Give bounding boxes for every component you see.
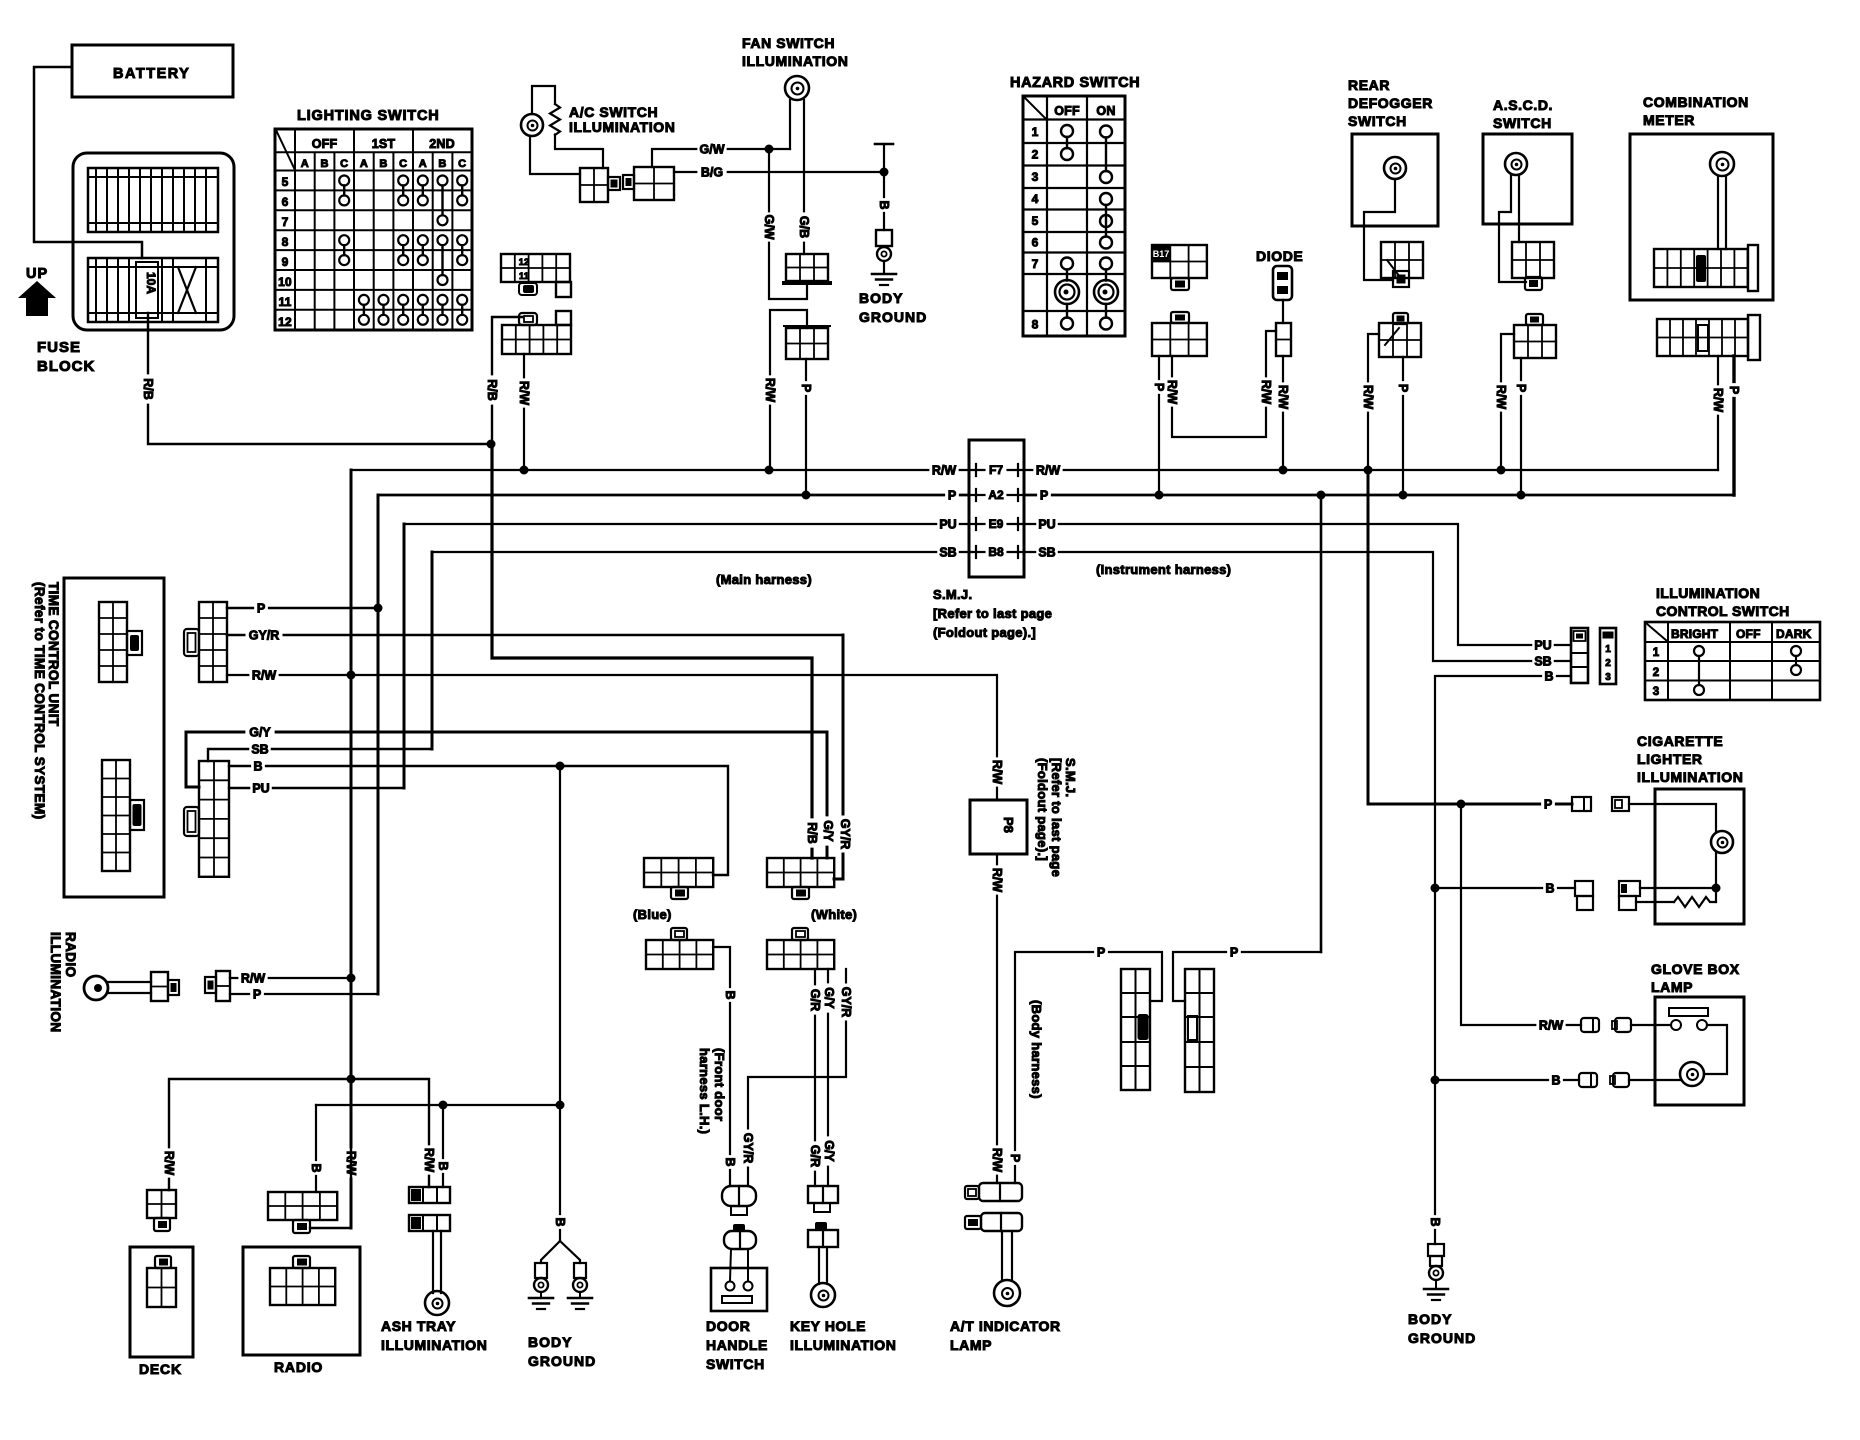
wire R/W meter to bus <box>1717 356 1719 470</box>
ascd harness connector <box>1514 325 1556 358</box>
svg-text:R/W: R/W <box>422 1148 436 1173</box>
wire G/R keyhole <box>814 969 816 1186</box>
junction B cigarette lighter <box>1431 884 1440 893</box>
connector front door (blue) lower <box>646 928 713 969</box>
svg-text:1: 1 <box>1032 125 1039 139</box>
connector A/T lamp lower <box>965 1213 1022 1231</box>
label G/R upper <box>808 985 822 1014</box>
door handle switch box <box>711 1249 767 1311</box>
label B <box>877 198 891 212</box>
svg-text:P: P <box>1040 488 1048 502</box>
junction P bus defogger <box>1399 491 1408 500</box>
A/T lamp stem <box>1002 1231 1012 1281</box>
lamp key hole illumination <box>811 1283 835 1307</box>
connector B17 hazard <box>1152 245 1207 278</box>
lighting switch harness connector <box>502 311 571 354</box>
svg-text:R/B: R/B <box>805 822 819 844</box>
connector key-cylinder (white) lower <box>767 928 834 969</box>
svg-text:G/W: G/W <box>762 215 776 240</box>
svg-text:ON: ON <box>1096 104 1115 118</box>
connector fan switch (harness side) <box>784 326 830 359</box>
svg-text:SB: SB <box>251 742 268 756</box>
radio illumination label <box>48 932 78 1033</box>
svg-text:1: 1 <box>1653 647 1660 659</box>
svg-text:RADIO: RADIO <box>63 932 78 978</box>
defogger connector pigtail <box>1387 260 1409 287</box>
wire R/W ascd to bus <box>1501 334 1514 470</box>
svg-text:TIME CONTROL UNIT: TIME CONTROL UNIT <box>46 582 61 727</box>
svg-text:R/W: R/W <box>1165 380 1179 405</box>
connector deck <box>147 1256 176 1307</box>
label P left of smj <box>945 488 959 502</box>
label R/B <box>485 375 499 404</box>
label P right of smj <box>1037 488 1051 502</box>
svg-text:ILLUMINATION: ILLUMINATION <box>1637 769 1743 785</box>
svg-text:SWITCH: SWITCH <box>706 1356 765 1372</box>
key hole illumination label <box>790 1318 896 1353</box>
svg-text:P: P <box>948 488 956 502</box>
svg-text:GROUND: GROUND <box>528 1353 596 1369</box>
junction R/W distribution <box>347 1075 356 1084</box>
svg-text:4: 4 <box>1032 192 1039 206</box>
svg-text:OFF: OFF <box>1736 627 1761 641</box>
junction R/W TCU <box>347 671 356 680</box>
svg-text:RADIO: RADIO <box>274 1359 323 1375</box>
connector TCU upper (unit side) <box>99 602 142 682</box>
svg-text:C: C <box>340 158 348 170</box>
smj pin B8 <box>976 545 1018 559</box>
svg-text:B: B <box>877 200 891 209</box>
wire P body harness right <box>1173 952 1321 1001</box>
label G/B <box>797 212 811 241</box>
label P <box>1152 380 1166 394</box>
svg-text:METER: METER <box>1643 112 1695 128</box>
lamp radio illumination <box>84 976 108 1000</box>
svg-text:3: 3 <box>1653 686 1660 698</box>
pin connector P male <box>1572 797 1591 811</box>
wire P fan to bus <box>805 359 807 495</box>
label G/Y white connector <box>821 816 835 845</box>
connector fan switch (switch side) <box>784 254 830 283</box>
connector illumination control (male) <box>1571 628 1588 683</box>
svg-text:R/W: R/W <box>1036 463 1061 477</box>
wire B to glove box <box>1435 1079 1579 1081</box>
connector illumination control (female) <box>1600 628 1616 684</box>
S.M.J. P8 box <box>970 800 1027 854</box>
svg-text:R/B: R/B <box>485 379 499 401</box>
svg-text:(Refer to TIME CONTROL SYSTEM): (Refer to TIME CONTROL SYSTEM) <box>32 582 47 820</box>
fuse crossed-out <box>178 267 196 313</box>
svg-text:11: 11 <box>519 271 529 281</box>
label R/W <box>1165 377 1179 406</box>
door handle switch label <box>706 1318 768 1372</box>
ground terminal left <box>529 1263 553 1309</box>
ascd harness connector tab <box>1526 314 1543 325</box>
label SB <box>249 742 271 756</box>
lighting switch connector tab <box>519 283 537 295</box>
svg-text:A: A <box>419 158 427 170</box>
wire ascd lamp jog to tab <box>1499 175 1526 282</box>
svg-text:G/R: G/R <box>808 1145 822 1167</box>
label PU <box>250 781 272 795</box>
svg-text:[Refer to last page: [Refer to last page <box>933 606 1052 621</box>
svg-text:R/B: R/B <box>141 378 155 400</box>
label R/W glove box <box>1536 1018 1565 1032</box>
fuse block label <box>37 339 95 375</box>
hazard switch lamp OFF <box>1055 280 1079 304</box>
hazard harness connector tab <box>1171 312 1189 323</box>
label B <box>1542 669 1556 683</box>
label P <box>1396 381 1410 395</box>
svg-text:10A: 10A <box>144 272 158 294</box>
svg-text:R/W: R/W <box>241 971 266 985</box>
label GY/R white connector <box>838 816 852 853</box>
fuse 10A <box>136 262 158 318</box>
svg-text:A.S.C.D.: A.S.C.D. <box>1493 97 1553 113</box>
lamp A.S.C.D. switch <box>1505 153 1527 175</box>
svg-text:9: 9 <box>282 255 289 269</box>
svg-text:(Instrument harness): (Instrument harness) <box>1096 562 1231 577</box>
svg-text:A2: A2 <box>988 488 1004 502</box>
svg-text:(White): (White) <box>811 907 857 922</box>
svg-text:R/W: R/W <box>252 668 277 682</box>
label GY/R upper <box>839 984 853 1021</box>
svg-text:KEY HOLE: KEY HOLE <box>790 1318 866 1334</box>
label P <box>250 987 264 1001</box>
connector ash tray lamp side <box>409 1215 450 1231</box>
wire B/G <box>674 171 884 173</box>
connector ascd <box>1512 242 1554 278</box>
wire bulb to connector <box>530 136 580 174</box>
svg-text:SB: SB <box>1534 654 1551 668</box>
label R/W above P8 <box>990 757 1004 786</box>
label R/W radio <box>344 1148 358 1177</box>
junction P bus body harness <box>1317 491 1326 500</box>
label R/W right of smj <box>1033 463 1062 477</box>
svg-text:P8: P8 <box>1001 817 1016 833</box>
svg-text:SB: SB <box>939 545 956 559</box>
A/C switch illumination label <box>569 104 675 135</box>
ground terminal right side <box>1424 1244 1448 1300</box>
junction P cigarette lighter <box>1457 800 1466 809</box>
wire PU vertical <box>403 524 406 788</box>
svg-text:B: B <box>309 1163 323 1172</box>
svg-text:2: 2 <box>1032 148 1039 162</box>
junction R/W bus x769 <box>765 466 774 475</box>
svg-text:P: P <box>1514 384 1528 392</box>
junction B/G / B <box>880 168 889 177</box>
battery B1 <box>72 45 233 97</box>
label SB <box>1532 654 1554 668</box>
svg-text:PU: PU <box>1038 517 1055 531</box>
label GY/R <box>246 628 283 642</box>
junction R/W bus x524 <box>520 466 529 475</box>
connector body harness (female) <box>1185 969 1214 1092</box>
label R/W <box>1361 382 1375 411</box>
connector A/T lamp upper <box>965 1183 1022 1201</box>
label R/W <box>1711 385 1725 414</box>
wire P into cigarette lighter <box>1629 804 1716 831</box>
svg-text:B: B <box>723 990 737 999</box>
svg-text:10: 10 <box>278 275 292 289</box>
label B ashtray <box>436 1159 450 1173</box>
svg-text:DARK: DARK <box>1776 627 1812 641</box>
label R/W ashtray <box>422 1145 436 1174</box>
svg-text:DIODE: DIODE <box>1256 248 1303 264</box>
wire P TCU <box>227 607 378 609</box>
label R/W <box>249 668 278 682</box>
lighting switch connector (switch side) <box>501 254 571 297</box>
svg-text:11: 11 <box>278 295 291 309</box>
connector radio illumination <box>151 972 179 1001</box>
wire R/W P8 to A/T lamp <box>996 854 998 1183</box>
pin connector R/W male <box>1581 1018 1599 1032</box>
junction G/W <box>765 145 774 154</box>
lamp A/C switch illumination <box>521 114 543 136</box>
svg-text:P: P <box>1230 945 1238 959</box>
ash tray lamp stem <box>433 1231 441 1293</box>
svg-text:ASH TRAY: ASH TRAY <box>381 1318 456 1334</box>
svg-text:A/C SWITCH: A/C SWITCH <box>569 104 658 120</box>
label R/W <box>1494 382 1508 411</box>
svg-text:8: 8 <box>1032 318 1039 332</box>
wire B TCU <box>229 766 728 875</box>
label B body ground right <box>1428 1215 1442 1229</box>
wire SB vertical <box>431 552 434 749</box>
svg-text:A/T INDICATOR: A/T INDICATOR <box>950 1318 1061 1334</box>
svg-text:B: B <box>1545 881 1554 895</box>
wire battery to fuse block <box>34 67 142 258</box>
svg-text:R/W: R/W <box>162 1151 176 1176</box>
wire G/W vertical to fan connector <box>769 149 807 299</box>
cigarette lighter label <box>1637 733 1743 785</box>
wire PU bus E9 <box>404 524 1571 645</box>
junction R/W radio <box>347 974 356 983</box>
illumination control switch table <box>1645 622 1820 700</box>
svg-text:LAMP: LAMP <box>950 1337 992 1353</box>
glove box lamp box <box>1655 997 1744 1105</box>
wire GY/R TCU <box>227 634 843 637</box>
svg-text:BODY: BODY <box>528 1334 572 1350</box>
terminal stud <box>875 144 893 172</box>
svg-text:3: 3 <box>1032 170 1039 184</box>
svg-text:G/W: G/W <box>700 142 725 156</box>
connector A/C switch <box>580 168 620 202</box>
svg-text:G/R: G/R <box>808 989 822 1011</box>
svg-text:R/W: R/W <box>990 760 1004 785</box>
label P left <box>1094 945 1108 959</box>
svg-text:R/W: R/W <box>1361 385 1375 410</box>
label G/Y <box>245 725 274 739</box>
combination meter box <box>1630 134 1773 300</box>
UP arrow <box>18 266 56 316</box>
label G/W <box>697 142 726 156</box>
svg-text:DOOR: DOOR <box>706 1318 750 1334</box>
label R/B <box>141 374 155 403</box>
junction P bus fan <box>802 491 811 500</box>
wire P vertical <box>377 495 380 994</box>
wire resistor lead <box>1636 901 1674 903</box>
svg-text:ILLUMINATION: ILLUMINATION <box>790 1337 896 1353</box>
wire B to radio connector <box>315 1105 317 1192</box>
svg-text:G/B: G/B <box>797 216 811 238</box>
svg-text:LIGHTING SWITCH: LIGHTING SWITCH <box>297 108 440 124</box>
junction R/B <box>487 440 496 449</box>
label P right <box>1227 945 1241 959</box>
wire G/Y TCU <box>186 732 827 858</box>
svg-text:B17: B17 <box>1153 249 1170 259</box>
svg-text:BLOCK: BLOCK <box>37 358 95 375</box>
wire P hazard to bus <box>1158 356 1160 495</box>
lighting switch harness connector tab <box>519 313 537 325</box>
svg-text:P: P <box>1097 945 1105 959</box>
wire GY/R vertical <box>842 635 845 879</box>
wire R/W lighting switch to bus <box>523 354 525 470</box>
svg-text:12: 12 <box>519 257 529 267</box>
svg-text:C: C <box>399 158 407 170</box>
junction B TCU <box>556 762 565 771</box>
svg-text:BODY: BODY <box>1408 1311 1452 1327</box>
wire R/W fan to bus <box>770 310 807 470</box>
svg-text:COMBINATION: COMBINATION <box>1643 94 1749 110</box>
lamp fan switch illumination <box>785 76 809 100</box>
wire R/B lighting switch <box>492 317 522 658</box>
svg-text:6: 6 <box>1032 236 1039 250</box>
wire P to cigarette lighter <box>1368 470 1572 804</box>
connector A/C harness side <box>623 167 674 200</box>
junction cigarette B <box>1712 884 1721 893</box>
junction R/W bus diode <box>1279 466 1288 475</box>
svg-text:DEFOGGER: DEFOGGER <box>1348 95 1433 111</box>
label R/W below P8 <box>990 865 1004 894</box>
svg-text:P: P <box>1396 384 1410 392</box>
svg-text:12: 12 <box>278 315 292 329</box>
label R/W <box>763 375 777 404</box>
connector key hole upper <box>808 1186 838 1212</box>
svg-text:R/W: R/W <box>990 868 1004 893</box>
svg-text:SWITCH: SWITCH <box>1493 115 1552 131</box>
label R/W left of smj <box>929 463 958 477</box>
smj pin F7 <box>976 463 1018 477</box>
wire SB bus B8 <box>432 552 1571 661</box>
svg-text:B: B <box>438 158 446 170</box>
svg-text:ILLUMINATION: ILLUMINATION <box>569 119 675 135</box>
label PU left of smj <box>937 517 959 531</box>
radio lamp stem <box>107 982 151 993</box>
svg-text:B: B <box>253 759 262 773</box>
A/T indicator lamp label <box>950 1318 1061 1353</box>
svg-text:REAR: REAR <box>1348 77 1390 93</box>
wire B into cigarette lighter <box>1640 887 1716 889</box>
svg-text:1ST: 1ST <box>372 137 396 151</box>
wire ascd lamp to connector <box>1518 175 1520 242</box>
svg-text:B: B <box>1428 1217 1442 1226</box>
label B <box>251 759 265 773</box>
connector TCU lower (unit side) <box>102 760 144 871</box>
combination meter label <box>1643 94 1749 128</box>
cigarette lighter box <box>1655 789 1744 924</box>
connector radio illumination harness <box>205 971 230 1001</box>
svg-text:S.M.J.: S.M.J. <box>933 587 972 602</box>
ground body <box>872 273 896 276</box>
svg-text:P: P <box>1008 1154 1022 1162</box>
connector front door (blue) upper <box>644 858 713 899</box>
wire B to cigarette lighter <box>1435 887 1575 889</box>
pin connector B male glove <box>1579 1073 1597 1087</box>
wire fan bulb left leg <box>789 100 791 149</box>
junction P TCU <box>374 604 383 613</box>
wire B to ashtray connector <box>442 1105 444 1187</box>
label P <box>254 601 268 615</box>
label PU <box>1532 638 1554 652</box>
lamp A/T indicator <box>994 1280 1020 1306</box>
svg-text:R/W: R/W <box>1259 380 1273 405</box>
svg-text:P: P <box>253 987 261 1001</box>
ground terminal right <box>568 1263 592 1309</box>
svg-text:GY/R: GY/R <box>249 628 280 642</box>
pin connector R/W female <box>1612 1018 1631 1032</box>
svg-text:GROUND: GROUND <box>1408 1330 1476 1346</box>
svg-text:(Foldout page).]: (Foldout page).] <box>933 625 1036 640</box>
wire R/W radio illumination <box>230 977 351 979</box>
wire fan bulb right leg G/B <box>803 100 805 254</box>
svg-text:G/Y: G/Y <box>821 820 835 842</box>
wire B center vertical <box>559 766 561 1241</box>
lamp cigarette lighter <box>1711 831 1733 853</box>
connector TCU upper (harness side) <box>184 602 227 682</box>
ring terminal <box>877 247 891 261</box>
wire cigarette lamp down <box>1715 853 1717 902</box>
label R/W <box>517 378 531 407</box>
svg-text:R/W: R/W <box>1711 388 1725 413</box>
body ground label right <box>1408 1311 1476 1346</box>
junction B glove box <box>1431 1076 1440 1085</box>
svg-text:(Blue): (Blue) <box>633 907 672 922</box>
wire to ground <box>883 261 885 273</box>
wire R/B vertical <box>490 444 492 446</box>
svg-text:F7: F7 <box>989 463 1003 477</box>
svg-text:P: P <box>799 384 813 392</box>
junction R/W bus defogger <box>1364 466 1373 475</box>
svg-text:B: B <box>1551 1073 1560 1087</box>
wire G/W from A/C connector <box>652 149 790 167</box>
label GY/R door handle <box>741 1130 755 1167</box>
wire R/W hazard to diode <box>1172 331 1276 437</box>
wire R/W vertical <box>350 470 353 1228</box>
svg-text:7: 7 <box>1032 257 1039 271</box>
svg-text:LAMP: LAMP <box>1651 979 1693 995</box>
connector key hole lower <box>808 1222 838 1247</box>
wire resistor to connector <box>555 135 603 169</box>
label P cigarette <box>1541 797 1555 811</box>
connector door handle lower <box>724 1224 756 1249</box>
wire R/W to glove box <box>1461 804 1581 1025</box>
wire P defogger to bus <box>1402 357 1404 495</box>
wire B into glove box <box>1629 1079 1680 1081</box>
label PU right of smj <box>1036 517 1058 531</box>
connector B17 tab <box>1171 278 1189 290</box>
svg-text:G/Y: G/Y <box>822 1140 836 1162</box>
hazard switch table <box>1023 96 1125 336</box>
wire GY/R door handle <box>748 969 846 1186</box>
svg-text:R/W: R/W <box>1276 385 1290 410</box>
svg-text:(Main harness): (Main harness) <box>716 572 812 587</box>
svg-text:GY/R: GY/R <box>741 1133 755 1164</box>
svg-text:CIGARETTE: CIGARETTE <box>1637 733 1723 749</box>
wire R/W to radio connector <box>310 1079 351 1228</box>
label R/W at A/T lamp <box>990 1145 1004 1174</box>
svg-text:2: 2 <box>1605 658 1611 669</box>
